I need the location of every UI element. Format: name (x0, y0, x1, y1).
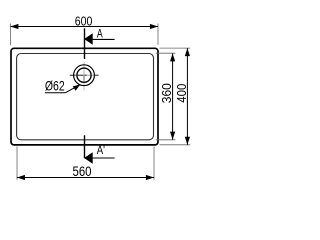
svg-text:A': A' (97, 143, 105, 157)
svg-text:Ø62: Ø62 (45, 79, 65, 94)
svg-text:A: A (97, 27, 103, 41)
svg-text:400: 400 (174, 84, 189, 103)
svg-text:560: 560 (73, 164, 92, 179)
svg-text:360: 360 (159, 83, 174, 103)
svg-text:600: 600 (75, 13, 93, 28)
